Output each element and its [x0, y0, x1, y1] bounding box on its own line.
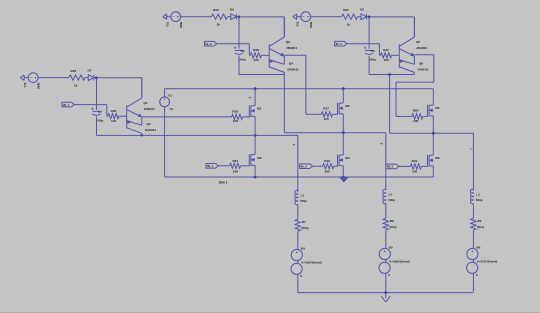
svg-text:500µ: 500µ — [300, 199, 307, 203]
svg-text:D7: D7 — [88, 69, 92, 73]
svg-text:{Rm}: {Rm} — [301, 226, 309, 230]
net label IN_2 — [205, 41, 217, 46]
svg-text:L1: L1 — [301, 193, 305, 197]
svg-text:D5: D5 — [360, 8, 364, 12]
svg-text:5v: 5v — [170, 107, 174, 111]
svg-text:100: 100 — [324, 117, 329, 121]
wire node X down to cap — [368, 17, 370, 49]
svg-text:R7: R7 — [302, 220, 306, 224]
wire driver3 output — [414, 54, 433, 56]
junction bridge2 output — [342, 131, 345, 134]
diode D7 — [85, 77, 88, 79]
svg-text:500µ: 500µ — [239, 58, 246, 62]
svg-text:0: 0 — [388, 273, 390, 277]
svg-text:D45H11: D45H11 — [418, 67, 429, 71]
resistor R16 — [232, 114, 243, 119]
node X junction — [238, 16, 241, 19]
svg-text:Q2: Q2 — [146, 122, 150, 126]
net label IN_2 (M4 gate) — [300, 164, 313, 169]
svg-text:1k: 1k — [74, 84, 78, 88]
svg-text:V=V(7)*{Kemf}: V=V(7)*{Kemf} — [477, 259, 498, 263]
svg-text:C5: C5 — [371, 49, 375, 53]
net label IN_3 — [335, 41, 347, 46]
net label IN_1 (M2 gate) — [206, 164, 218, 169]
mosfet M1 — [248, 105, 250, 117]
capacitor C5 — [365, 49, 373, 51]
svg-text:M4: M4 — [345, 156, 350, 160]
diode D5 — [358, 16, 361, 18]
resistor R29 — [107, 115, 108, 117]
svg-text:IN_1: IN_1 — [207, 164, 213, 168]
resistor R27 — [379, 54, 380, 56]
resistor R9 — [471, 218, 476, 230]
svg-text:Q4: Q4 — [289, 61, 293, 65]
wire M1 source to phase1 — [254, 116, 256, 135]
wire phase2 down to L2 — [385, 133, 387, 190]
junction M4 source on ground rail — [342, 176, 345, 179]
svg-text:500µ: 500µ — [388, 198, 395, 202]
svg-text:SINE: SINE — [37, 82, 41, 89]
ground flag on ground rail — [340, 178, 347, 182]
svg-text:SINE: SINE — [309, 22, 313, 29]
svg-text:IN_1: IN_1 — [63, 103, 69, 107]
mosfet M5 — [427, 105, 429, 117]
resistor R15 — [230, 163, 241, 168]
svg-text:1k: 1k — [347, 23, 351, 27]
wire node X to collector — [369, 16, 414, 18]
svg-text:100: 100 — [412, 170, 417, 174]
wire M3 source to phase2 — [342, 114, 344, 133]
transistor Q1 — [126, 105, 128, 128]
transistor Q2 — [127, 121, 142, 125]
svg-text:R15: R15 — [233, 159, 239, 163]
svg-text:V=V(6)*{Kemf}: V=V(6)*{Kemf} — [389, 259, 410, 263]
wire phase3 drop — [389, 75, 391, 134]
wire — [297, 205, 299, 220]
svg-text:R20: R20 — [413, 109, 419, 113]
svg-text:R28: R28 — [253, 48, 259, 52]
emitter pin segment — [283, 56, 285, 64]
svg-text:D6: D6 — [230, 8, 234, 12]
svg-text:D45H11: D45H11 — [145, 128, 156, 132]
wire — [385, 230, 387, 248]
node X junction — [368, 16, 371, 19]
wire IN_3 to R21 — [399, 165, 411, 167]
transistor Q3 — [268, 44, 270, 67]
wire driver2 output — [284, 54, 306, 56]
svg-text:SINE: SINE — [179, 22, 183, 29]
wire M6 drain from phase3 — [432, 133, 434, 155]
wire M1 drain — [254, 89, 256, 106]
bv source B5 — [379, 248, 390, 259]
resistor R19 — [323, 164, 334, 169]
wire C6 bottom rail — [239, 74, 284, 76]
mosfet M2 — [248, 154, 250, 166]
svg-text:R17: R17 — [323, 106, 329, 110]
wire M2 drain from phase1 — [254, 135, 256, 154]
svg-text:IN_2: IN_2 — [206, 42, 212, 46]
svg-text:{Rm}: {Rm} — [477, 225, 485, 229]
node X junction — [95, 76, 98, 79]
wire M6 source to ground rail — [432, 166, 434, 177]
wire node X down to cap — [238, 17, 240, 49]
wire — [472, 273, 474, 291]
capacitor C6 — [235, 49, 243, 51]
svg-text:500µ: 500µ — [476, 198, 483, 202]
svg-text:B5: B5 — [389, 245, 393, 249]
wire IN_2 to R19 — [313, 165, 323, 167]
wire phase3 down to L3 — [472, 133, 474, 191]
svg-text:100: 100 — [324, 170, 329, 174]
wire — [385, 273, 387, 291]
svg-text:Q1: Q1 — [143, 101, 147, 105]
wire IN to base resistor — [74, 104, 107, 106]
transistor Q5 — [398, 44, 400, 67]
wire M5 source to phase3 — [432, 116, 434, 133]
resistor R21 — [410, 164, 421, 169]
0V sense source — [291, 263, 302, 274]
inductor L1 — [295, 190, 298, 204]
svg-text:100: 100 — [233, 119, 238, 123]
svg-text:R23: R23 — [213, 8, 219, 12]
svg-text:D45H11: D45H11 — [288, 67, 299, 71]
svg-text:R21: R21 — [412, 159, 418, 163]
svg-text:R16: R16 — [232, 109, 238, 113]
wire M4 source to ground rail — [342, 166, 344, 177]
transistor Q4 — [269, 60, 284, 64]
svg-text:V=V(5)*{Kemf}: V=V(5)*{Kemf} — [301, 260, 322, 264]
wire phase1 down to L1 — [297, 135, 299, 192]
junction Q2 collector on phase1 — [141, 134, 143, 136]
wire — [297, 231, 299, 249]
svg-text:2N3904: 2N3904 — [144, 107, 155, 111]
wire — [472, 260, 474, 263]
voltage source V12 — [301, 12, 311, 22]
svg-text:100: 100 — [233, 169, 238, 173]
net label IN_1 — [62, 102, 74, 107]
wire IN to base resistor — [347, 43, 380, 45]
emitter pin segment — [141, 117, 143, 125]
wire cap to rail — [238, 56, 240, 75]
wire — [311, 16, 342, 18]
svg-text:V12: V12 — [295, 21, 299, 26]
wire phase3 rail — [390, 132, 474, 134]
mosfet M4 — [337, 155, 339, 167]
junction M2 source on ground rail — [254, 176, 257, 179]
wire — [472, 204, 474, 219]
svg-text:100: 100 — [254, 58, 259, 62]
inductor L3 — [470, 189, 473, 203]
svg-text:V10: V10 — [23, 82, 27, 87]
resistor R23 — [212, 14, 228, 19]
svg-text:M5: M5 — [435, 106, 440, 110]
svg-text:V1: V1 — [168, 93, 172, 97]
svg-text:R19: R19 — [324, 159, 330, 163]
wire star-point bottom rail — [298, 292, 474, 294]
wire Q4 collector down to phase2 — [283, 72, 285, 133]
wire node X to collector — [97, 77, 142, 79]
svg-text:.tran 1: .tran 1 — [218, 180, 228, 184]
svg-text:100: 100 — [413, 119, 418, 123]
svg-text:R29: R29 — [111, 109, 117, 113]
wire — [385, 260, 387, 263]
wire — [297, 261, 299, 264]
0V sense source — [379, 262, 390, 273]
wire M5 drain — [432, 89, 434, 106]
0V sense source — [467, 262, 478, 273]
junction M1 drain on +V rail — [254, 87, 257, 90]
wire ground rail — [165, 176, 434, 178]
wire cap to rail — [368, 56, 370, 75]
wire node X down to cap — [96, 78, 98, 110]
svg-text:IN_3: IN_3 — [336, 42, 342, 46]
svg-text:M3: M3 — [345, 104, 350, 108]
voltage source V11 — [171, 12, 181, 22]
svg-text:2N3904: 2N3904 — [416, 46, 427, 50]
wire phase2 rail — [284, 132, 386, 134]
wire cap to rail — [96, 117, 98, 136]
svg-text:V11: V11 — [165, 21, 169, 26]
svg-text:0: 0 — [300, 274, 302, 278]
junction M3 drain on +V rail — [342, 87, 345, 90]
svg-text:Q6: Q6 — [419, 61, 423, 65]
capacitor C7 — [92, 110, 100, 112]
svg-text:B6: B6 — [476, 245, 480, 249]
bv source B4 — [291, 249, 302, 260]
junction bridge3 output — [432, 132, 435, 135]
wire phase1 rail — [97, 134, 298, 136]
junction ground tap — [384, 291, 387, 294]
wire M2 source to ground rail — [254, 165, 256, 177]
wire +V top rail — [165, 88, 434, 90]
svg-text:IN_3: IN_3 — [387, 165, 393, 169]
svg-text:0: 0 — [476, 273, 478, 277]
svg-text:100: 100 — [111, 119, 116, 123]
svg-text:500µ: 500µ — [369, 58, 376, 62]
svg-text:Q3: Q3 — [286, 40, 290, 44]
wire M3 drain — [342, 89, 344, 103]
wire C5 bottom rail — [369, 74, 414, 76]
svg-text:L3: L3 — [476, 192, 480, 196]
wire — [181, 16, 212, 18]
svg-text:B4: B4 — [301, 246, 305, 250]
mosfet M3 — [337, 103, 339, 115]
bv source B6 — [467, 248, 478, 259]
wire — [385, 204, 387, 219]
svg-text:100: 100 — [384, 58, 389, 62]
resistor R8 — [383, 218, 388, 230]
resistor R26 — [69, 75, 85, 80]
wire M4 drain from phase2 — [342, 133, 344, 155]
svg-text:R8: R8 — [390, 219, 394, 223]
svg-text:C7: C7 — [98, 110, 102, 114]
transistor Q6 — [399, 60, 414, 64]
wire driver1 output to R16 — [142, 116, 232, 118]
svg-text:IN_2: IN_2 — [301, 164, 307, 168]
voltage source V10 — [28, 73, 38, 83]
svg-text:M6: M6 — [435, 156, 440, 160]
junction phase3 tap — [388, 73, 391, 76]
svg-text:R9: R9 — [478, 219, 482, 223]
bottom edge shade — [0, 312, 540, 313]
wire — [297, 274, 299, 292]
svg-text:Q5: Q5 — [416, 40, 420, 44]
resistor R20 — [412, 114, 423, 119]
resistor R22 — [342, 14, 358, 19]
wire — [38, 77, 69, 79]
emitter pin segment — [413, 56, 415, 64]
svg-text:C6: C6 — [241, 49, 245, 53]
inductor L2 — [383, 189, 386, 203]
wire V1 top — [164, 89, 166, 97]
resistor R17 — [321, 112, 332, 117]
svg-text:2N3904: 2N3904 — [286, 46, 297, 50]
wire node X to collector — [239, 16, 284, 18]
diode D6 — [228, 16, 231, 18]
wire IN_1 to R15 — [218, 165, 229, 167]
svg-text:{Rm}: {Rm} — [389, 225, 397, 229]
svg-text:1k: 1k — [217, 23, 221, 27]
junction bridge1 output — [254, 134, 257, 137]
resistor R7 — [295, 219, 300, 231]
svg-text:L2: L2 — [389, 192, 393, 196]
mosfet M6 — [427, 155, 429, 167]
svg-text:R26: R26 — [71, 69, 77, 73]
voltage source V1 — [160, 97, 170, 107]
svg-text:500µ: 500µ — [96, 118, 103, 122]
svg-text:M2: M2 — [257, 156, 262, 160]
wire IN to base resistor — [217, 43, 250, 45]
net label IN_3 (M6 gate) — [386, 164, 399, 169]
svg-text:R27: R27 — [383, 48, 389, 52]
wire — [472, 230, 474, 248]
resistor R28 — [249, 54, 250, 56]
wire V1 bottom to ground rail — [164, 107, 166, 177]
svg-text:R22: R22 — [343, 8, 349, 12]
ground symbol at star point — [385, 293, 387, 299]
svg-text:M1: M1 — [257, 107, 262, 111]
